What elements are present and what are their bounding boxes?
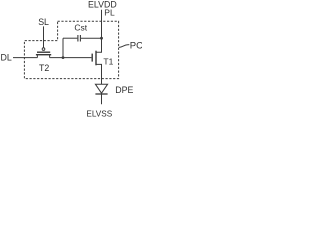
junction node at PL and Cst [100,37,103,40]
transistor T1 gate bar [91,54,93,62]
wire from diode cathode to ELVSS [101,95,103,105]
capacitor Cst right plate [79,35,81,42]
junction node at gate net [62,56,65,59]
svg-text:Cst: Cst [74,23,87,33]
wire from SL to gate of T2 [43,26,45,47]
dashed pixel-circuit boundary box PC [24,21,118,78]
wire to Cst left plate [63,37,77,39]
wire from Cst right plate to power line PL [81,37,102,39]
leader line to PC label [119,45,130,48]
transistor T2 source leg [36,55,38,58]
svg-text:SL: SL [38,17,49,27]
svg-text:T1: T1 [103,57,113,67]
transistor T2 gate bar [37,51,50,53]
wire from DL to T2 source [13,57,37,59]
svg-text:DPE: DPE [115,85,133,95]
gate contact circle of T2 [42,48,45,51]
transistor T2 channel [36,54,51,56]
wire riser from junction to Cst [62,38,64,57]
svg-text:PL: PL [104,7,115,17]
svg-text:ELVSS: ELVSS [86,109,112,118]
svg-text:DL: DL [1,52,12,62]
svg-text:PC: PC [130,41,142,52]
transistor T1 drain lead to diode DPE [96,64,102,84]
transistor T1 channel [95,51,97,66]
transistor T2 drain leg [49,55,51,58]
svg-text:T2: T2 [39,63,49,73]
diode DPE cathode bar [95,93,107,95]
power line PL wire from ELVDD to T1 [96,10,102,52]
capacitor Cst left plate [77,35,79,42]
wire from T2 drain to gate of T1 [50,57,92,59]
diode DPE anode triangle [95,84,107,93]
